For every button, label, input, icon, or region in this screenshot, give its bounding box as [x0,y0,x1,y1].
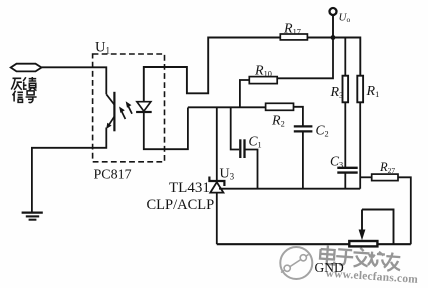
emitter wire to ground [32,128,106,213]
馈 [23,77,36,91]
output terminal Uo [330,8,337,15]
resistor R10 [249,77,277,84]
junction dot [331,35,336,40]
ground [22,213,43,220]
capacitor C3 [337,168,357,173]
R3 top lead [344,38,346,76]
TL431 symbol U3 [209,177,224,193]
svg-text:CLP/ACLP: CLP/ACLP [147,197,215,213]
rail1 [188,106,266,108]
子 [336,249,354,265]
发 [353,247,370,267]
capacitor C1 [240,139,244,158]
text 反馈 (hand strokes) [11,77,36,103]
C1 stub from rail1 [231,107,240,149]
resistor R3 [343,76,349,103]
watermark text 电子发烧友 [319,245,401,272]
resistor R2 [266,103,294,110]
watermark logo circle [280,247,312,279]
phototransistor [106,92,114,132]
LED diode [136,102,152,112]
TL431 anode down to bottom rail [216,193,218,245]
resistor R17 [280,34,307,40]
light arrows [119,101,132,119]
友 [384,252,401,272]
resistor R1 [357,76,363,103]
R10 left lead down to rail1 [240,80,249,107]
rail2 (ref line) [219,188,360,190]
LED cathode wire to rail [144,108,188,150]
R1 bottom lead down [359,102,361,188]
wiper wire loop [362,210,394,245]
反 [11,78,22,89]
bottom rail [217,243,349,245]
烧 [368,251,388,267]
pot wiper arrow [361,210,363,232]
wire: oval to optocoupler collector [42,67,107,94]
svg-text:TL431: TL431 [169,180,210,196]
capacitor C2 [294,126,313,131]
号 [26,91,37,103]
电 [320,245,336,264]
TL431 stub from rail1 [216,107,218,180]
emitter arrowhead [106,123,111,129]
R3 bottom to C3 [344,102,346,167]
feedback connector oval [11,64,42,72]
svg-text:PC817: PC817 [94,168,132,183]
wire R17 right to junction and R1/R3 tops [307,38,360,76]
svg-text:GND: GND [315,260,344,275]
junction down to R10 [277,38,333,79]
pot right lead [377,243,410,245]
R2 right lead to C2 [294,107,303,126]
LED anode wire staircase to R17 [144,38,280,102]
optocoupler U1 dashed box [93,54,165,162]
potentiometer body [349,241,377,246]
信 [13,91,24,103]
resistor R27 [360,176,372,178]
